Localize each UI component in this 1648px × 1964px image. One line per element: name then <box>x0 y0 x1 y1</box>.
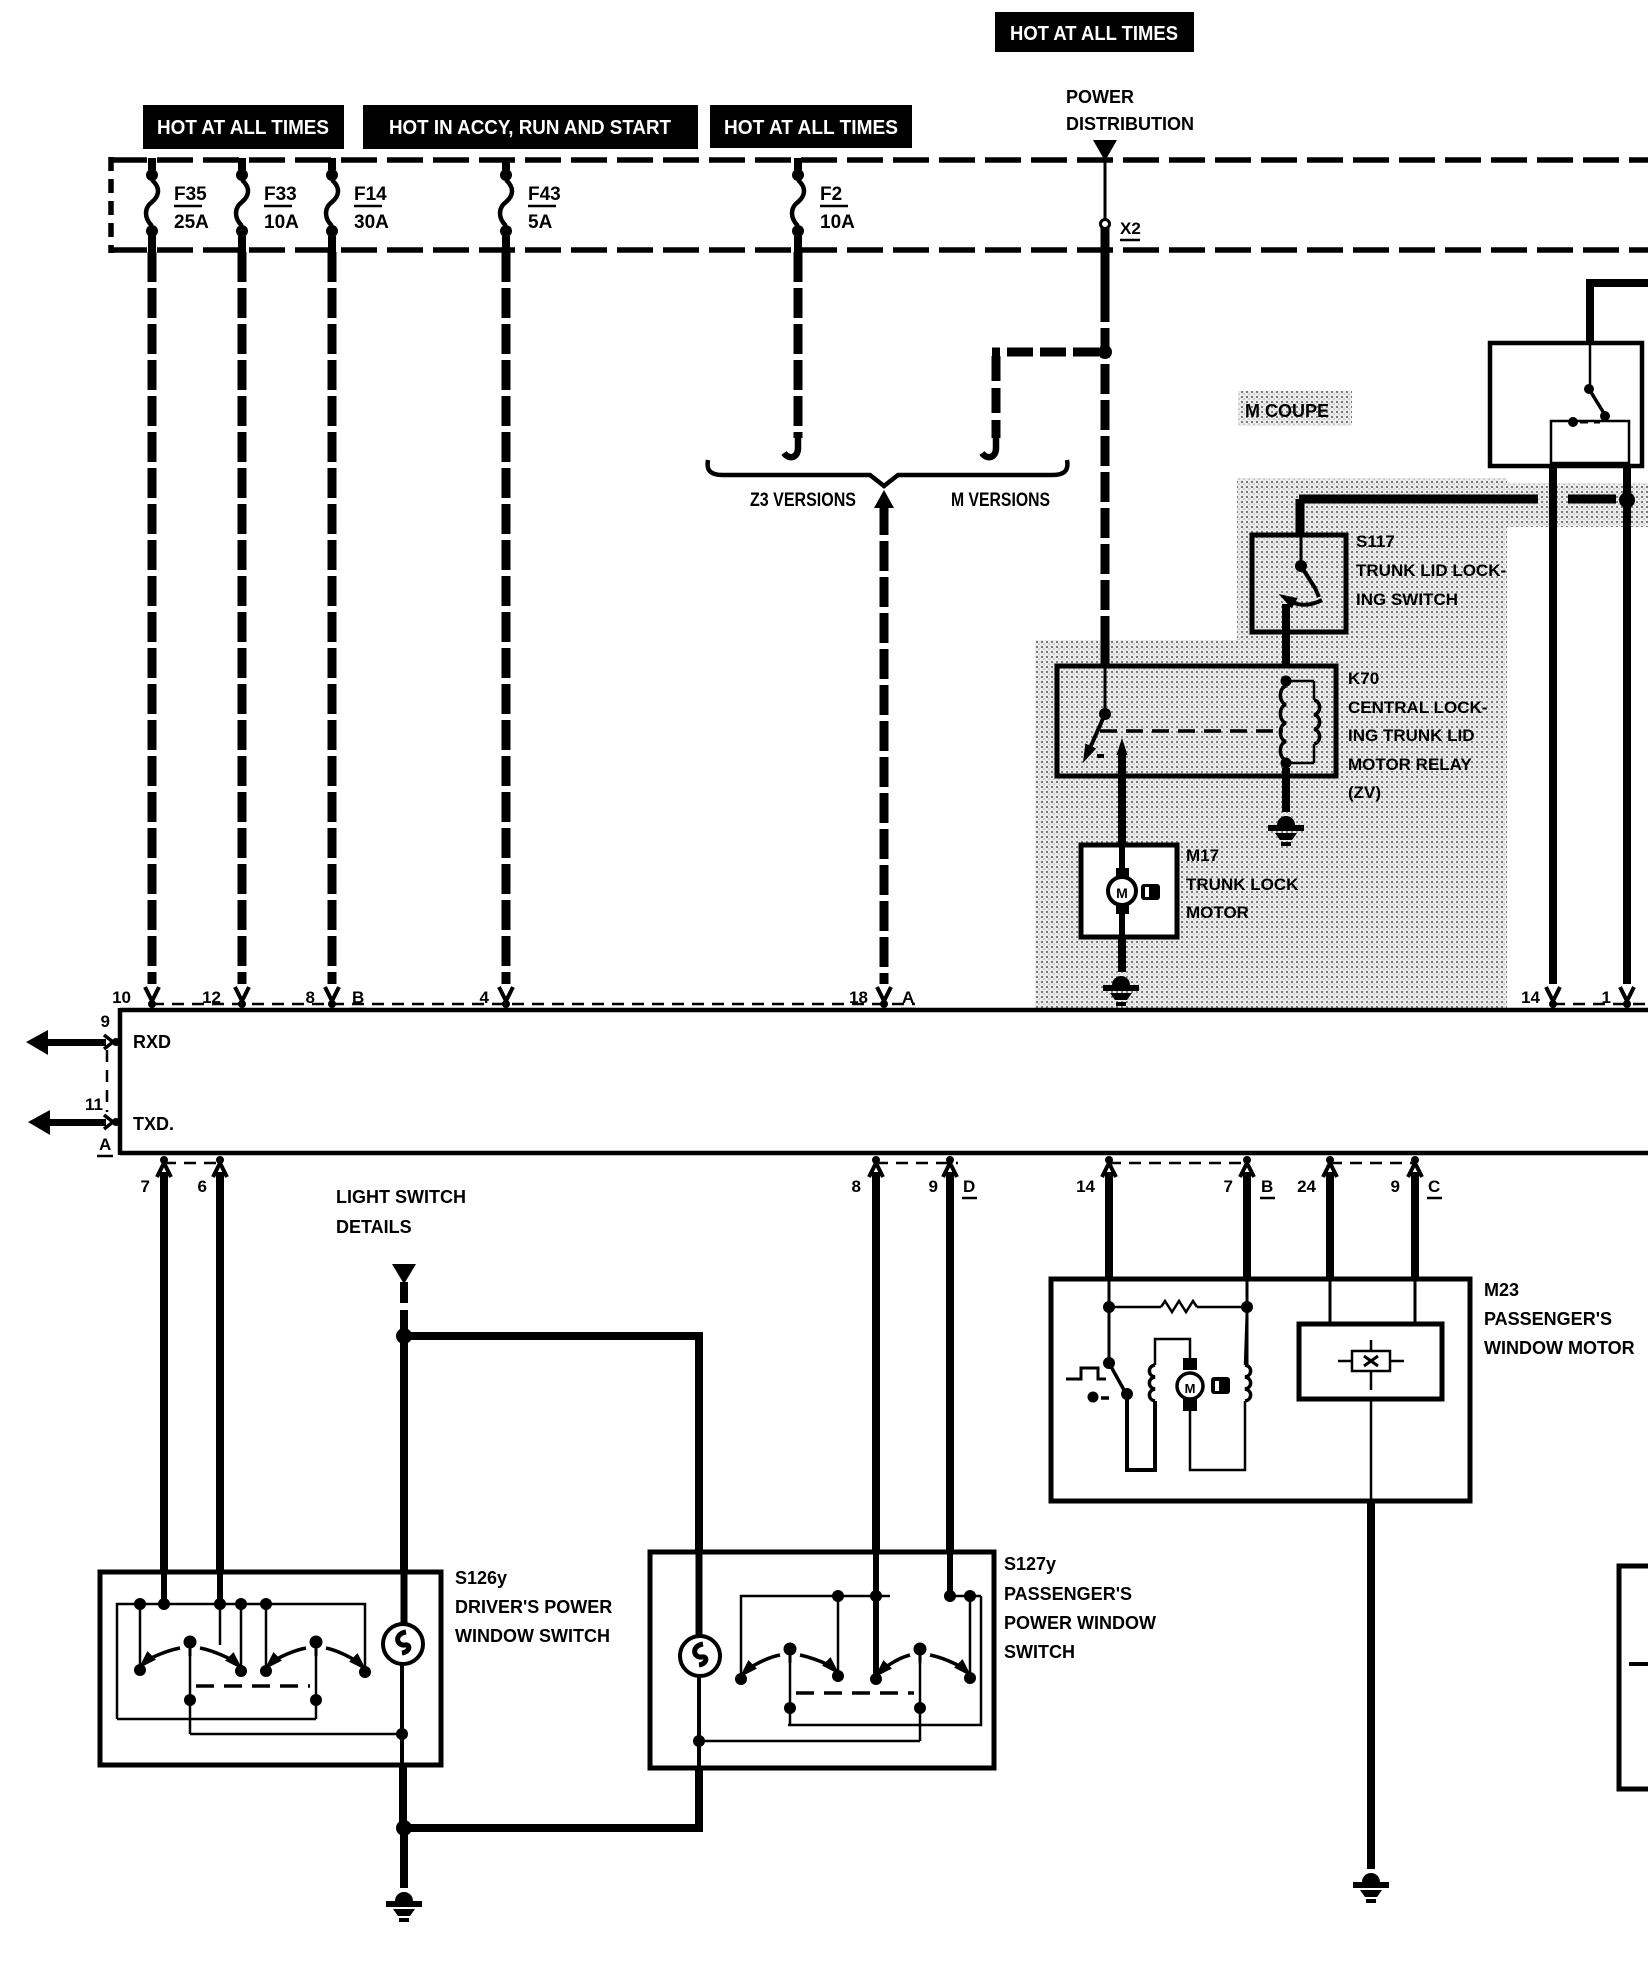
label S126y <box>455 1568 612 1646</box>
module pin 8 (bottom) <box>872 1156 880 1164</box>
module pin 4 (top) <box>499 987 513 1001</box>
dashed branch to M versions <box>992 348 1099 357</box>
module pin 12 (top) <box>235 987 249 1001</box>
junction on X2 wire <box>1098 345 1112 359</box>
svg-text:ING TRUNK LID: ING TRUNK LID <box>1348 726 1475 745</box>
wire X2 feed (solid then dashed) <box>1101 228 1110 292</box>
module pin 18 (top) <box>877 987 891 1001</box>
label A (left connector) <box>97 1135 113 1156</box>
wire module pin 14 down <box>1105 1172 1113 1281</box>
svg-text:F35: F35 <box>174 184 207 205</box>
label M23 <box>1484 1280 1635 1358</box>
svg-text:9: 9 <box>929 1177 938 1196</box>
wire module pin 9 down <box>946 1172 954 1552</box>
svg-text:CENTRAL LOCK-: CENTRAL LOCK- <box>1348 698 1487 717</box>
svg-text:14: 14 <box>1521 988 1540 1007</box>
wire arrow to X2 connector <box>1104 160 1107 219</box>
module pin 8 (top) <box>325 987 339 1001</box>
svg-text:6: 6 <box>198 1177 207 1196</box>
svg-text:F2: F2 <box>820 184 842 205</box>
svg-text:C: C <box>1428 1177 1440 1196</box>
svg-text:D: D <box>963 1177 975 1196</box>
svg-text:POWER: POWER <box>1066 87 1134 107</box>
module bottom connector dashed line <box>164 1162 220 1165</box>
switch blade top right <box>1589 345 1592 386</box>
svg-text:10: 10 <box>112 988 131 1007</box>
arrow from power distribution <box>1093 140 1117 161</box>
svg-text:SWITCH: SWITCH <box>1004 1642 1075 1662</box>
wire from fuse F2 (Z3 versions) <box>794 252 803 438</box>
partial box bottom right <box>1619 1566 1648 1789</box>
connector label B (bottom) <box>1260 1177 1275 1198</box>
hook end M versions wire <box>982 436 996 457</box>
switch S126y driver's power window switch <box>100 1572 441 1765</box>
wire K70 contact to M17 <box>1118 752 1126 847</box>
wire module pin 6 down <box>216 1172 224 1572</box>
wire M23 to ground <box>1367 1501 1375 1869</box>
fuse F14 30A <box>326 158 389 252</box>
M COUPE shaded region (upper) <box>1237 478 1507 640</box>
wire bus to S117 <box>1299 495 1538 504</box>
fuse F2 10A <box>792 158 855 252</box>
svg-text:7: 7 <box>1224 1177 1233 1196</box>
ground (K70 coil) <box>1268 816 1304 846</box>
module pin 14 (bottom) <box>1105 1156 1113 1164</box>
wire to ground <box>400 1828 408 1888</box>
module pin 9 (bottom) <box>946 1156 954 1164</box>
svg-text:S126y: S126y <box>455 1568 507 1588</box>
svg-text:11: 11 <box>85 1095 103 1114</box>
svg-text:MOTOR: MOTOR <box>1186 903 1249 922</box>
POWER DISTRIBUTION label <box>1066 87 1194 134</box>
resistor (M23) <box>1161 1301 1197 1312</box>
svg-text:10A: 10A <box>264 212 299 233</box>
connector label D (bottom) <box>962 1177 977 1198</box>
shaded band right <box>1507 483 1648 527</box>
brace grouping Z3/M versions <box>708 460 1068 486</box>
arrow up to brace <box>874 490 894 508</box>
armature circuit (M23) <box>1127 1394 1155 1470</box>
ground (M17) <box>1103 976 1139 1006</box>
svg-text:25A: 25A <box>174 212 209 233</box>
label M COUPE <box>1238 391 1352 426</box>
svg-text:WINDOW SWITCH: WINDOW SWITCH <box>455 1626 610 1646</box>
module pin 7 (bottom) <box>160 1156 168 1164</box>
wire S117 to K70 coil <box>1282 604 1290 678</box>
motor M23 passenger's window motor <box>1051 1279 1470 1501</box>
fuse F35 25A <box>146 158 209 252</box>
wire light switch feed <box>400 1282 408 1332</box>
header HOT IN ACCY, RUN AND START <box>363 105 698 149</box>
module pin 14 (top) <box>1546 987 1560 1001</box>
label S117 <box>1356 532 1506 609</box>
switch S127y passenger's power window switch <box>650 1552 994 1768</box>
module pin 6 (bottom) <box>216 1156 224 1164</box>
svg-text:HOT IN ACCY, RUN AND START: HOT IN ACCY, RUN AND START <box>389 117 671 139</box>
svg-text:(ZV): (ZV) <box>1348 783 1381 802</box>
svg-text:MOTOR RELAY: MOTOR RELAY <box>1348 755 1472 774</box>
svg-text:DISTRIBUTION: DISTRIBUTION <box>1066 114 1194 134</box>
fuse F33 10A <box>236 158 299 252</box>
wire feed top right <box>1590 283 1648 343</box>
svg-text:HOT AT ALL TIMES: HOT AT ALL TIMES <box>157 117 329 139</box>
header HOT AT ALL TIMES (top center) <box>995 12 1194 52</box>
position sensor (M23) <box>1329 1281 1332 1324</box>
relay link dashed <box>1100 729 1283 733</box>
junction light switch feed <box>396 1328 412 1344</box>
svg-text:TRUNK LOCK: TRUNK LOCK <box>1186 875 1299 894</box>
wire module pin 7 down <box>160 1172 168 1572</box>
svg-text:7: 7 <box>141 1177 150 1196</box>
junction ground bus <box>396 1820 412 1836</box>
svg-text:TXD.: TXD. <box>133 1114 174 1134</box>
fuse panel dashed box left edge <box>108 157 114 253</box>
label M17 <box>1186 846 1299 922</box>
wire from fuse to module pin 12 <box>238 252 247 984</box>
svg-text:9: 9 <box>1391 1177 1400 1196</box>
svg-text:LIGHT SWITCH: LIGHT SWITCH <box>336 1187 466 1207</box>
fuse F43 5A <box>500 158 561 252</box>
hook end Z3 versions wire <box>784 436 798 457</box>
svg-text:POWER WINDOW: POWER WINDOW <box>1004 1613 1156 1633</box>
svg-text:4: 4 <box>480 988 490 1007</box>
svg-text:Z3 VERSIONS: Z3 VERSIONS <box>750 490 856 511</box>
svg-text:12: 12 <box>202 988 221 1007</box>
pin 9 arrow RXD out <box>26 1030 120 1055</box>
svg-text:X2: X2 <box>1120 219 1141 238</box>
svg-text:ING SWITCH: ING SWITCH <box>1356 590 1458 609</box>
svg-text:B: B <box>352 988 364 1007</box>
svg-text:B: B <box>1261 1177 1273 1196</box>
svg-text:S127y: S127y <box>1004 1554 1056 1574</box>
fuse panel dashed box bottom bus <box>111 247 1648 253</box>
svg-text:M COUPE: M COUPE <box>1245 401 1329 421</box>
connector label A (top) <box>901 988 916 1009</box>
wire S126y to ground junction <box>399 1765 407 1824</box>
label X2 <box>1120 219 1141 240</box>
svg-text:M17: M17 <box>1186 846 1219 865</box>
wire module pin 24 down <box>1326 1172 1334 1281</box>
wire from fuse to module pin 4 <box>502 252 511 984</box>
switch box (top right) <box>1490 343 1642 466</box>
wire ground bus from S127y <box>404 1768 699 1828</box>
module pin 9 (bottom) <box>1411 1156 1419 1164</box>
svg-text:PASSENGER'S: PASSENGER'S <box>1484 1309 1612 1329</box>
svg-text:S117: S117 <box>1356 532 1395 551</box>
svg-text:HOT AT ALL TIMES: HOT AT ALL TIMES <box>724 117 898 139</box>
module pin 10 (top) <box>145 987 159 1001</box>
node X2 connector <box>1101 220 1110 229</box>
svg-text:M: M <box>1185 1381 1196 1396</box>
ground (M23) <box>1353 1873 1389 1903</box>
svg-text:30A: 30A <box>354 212 389 233</box>
svg-text:HOT AT ALL TIMES: HOT AT ALL TIMES <box>1010 23 1178 45</box>
wire K70 coil to ground <box>1282 768 1290 812</box>
fuse panel dashed box top bus <box>111 157 1648 163</box>
switch S117 trunk lid locking switch <box>1252 535 1346 632</box>
svg-text:8: 8 <box>306 988 315 1007</box>
wire from fuse to module pin 8 <box>328 252 337 984</box>
wire module pin 7 down <box>1243 1172 1251 1281</box>
module pin 24 (bottom) <box>1326 1156 1334 1164</box>
thermal cut-out switch (M23) <box>1066 1368 1106 1379</box>
svg-text:DRIVER'S POWER: DRIVER'S POWER <box>455 1597 612 1617</box>
svg-text:24: 24 <box>1297 1177 1316 1196</box>
svg-text:10A: 10A <box>820 212 855 233</box>
latch sub-box <box>1551 421 1629 463</box>
svg-text:WINDOW MOTOR: WINDOW MOTOR <box>1484 1338 1635 1358</box>
module pin 7 (bottom) <box>1243 1156 1251 1164</box>
label S127y <box>1004 1554 1156 1662</box>
svg-text:18: 18 <box>849 988 868 1007</box>
header HOT AT ALL TIMES (middle) <box>710 105 912 148</box>
relay K70 central locking trunk lid motor relay <box>1057 666 1336 776</box>
svg-text:14: 14 <box>1076 1177 1095 1196</box>
svg-text:5A: 5A <box>528 212 553 233</box>
svg-text:9: 9 <box>101 1012 110 1031</box>
connector label C (bottom) <box>1427 1177 1442 1198</box>
connector label B (top) <box>351 988 366 1009</box>
label K70 <box>1348 669 1487 802</box>
svg-text:M: M <box>1116 885 1128 901</box>
wire pin 14 (right) <box>1549 466 1557 984</box>
junction pin1 wire / S117 bus <box>1619 492 1635 508</box>
wire from fuse to module pin 10 <box>148 252 157 984</box>
LIGHT SWITCH DETAILS label <box>336 1187 466 1237</box>
svg-text:M VERSIONS: M VERSIONS <box>951 490 1050 511</box>
motor M17 trunk lock motor <box>1081 845 1177 937</box>
svg-text:K70: K70 <box>1348 669 1379 688</box>
header HOT AT ALL TIMES (left) <box>143 105 344 149</box>
svg-text:TRUNK LID LOCK-: TRUNK LID LOCK- <box>1356 561 1506 580</box>
wire pin 1 (right) <box>1623 466 1631 984</box>
svg-text:RXD: RXD <box>133 1032 171 1052</box>
svg-text:F43: F43 <box>528 184 561 205</box>
svg-text:1: 1 <box>1602 988 1611 1007</box>
module top connector dashed line <box>152 1003 915 1006</box>
module pin 1 (top) <box>1620 987 1634 1001</box>
wire M17 to ground <box>1118 937 1126 972</box>
ground (window switches) <box>386 1892 422 1922</box>
svg-text:F14: F14 <box>354 184 387 205</box>
wire module pin 8 down <box>872 1172 880 1552</box>
wire brace to module pin 18 <box>880 505 889 984</box>
svg-text:A: A <box>99 1135 111 1154</box>
svg-text:A: A <box>902 988 914 1007</box>
pin 11 arrow TXD out <box>28 1110 120 1135</box>
svg-text:M23: M23 <box>1484 1280 1519 1300</box>
module (general module) box <box>120 1008 1648 1155</box>
wire down to S117 <box>1296 499 1305 537</box>
wire branch to S127y lamp <box>404 1336 699 1552</box>
M COUPE shaded region (lower) <box>1035 640 1507 1008</box>
arrow from light switch <box>392 1264 416 1284</box>
svg-text:F33: F33 <box>264 184 297 205</box>
wire module pin 9 down <box>1411 1172 1419 1281</box>
connector dashed line left <box>106 1050 109 1112</box>
svg-text:8: 8 <box>852 1177 861 1196</box>
relay coil K70 <box>1281 676 1292 687</box>
svg-text:DETAILS: DETAILS <box>336 1217 412 1237</box>
svg-text:PASSENGER'S: PASSENGER'S <box>1004 1584 1132 1604</box>
